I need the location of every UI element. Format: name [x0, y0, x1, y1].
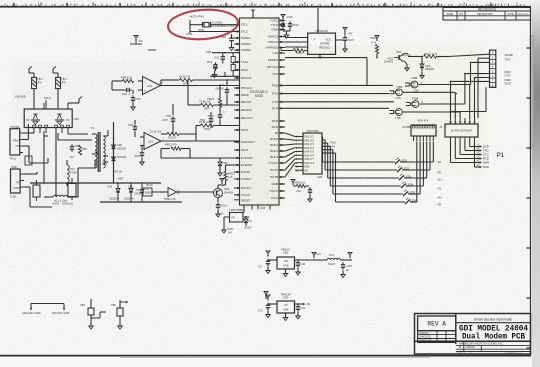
svg-text:C30: C30 — [301, 263, 306, 266]
op-amp U12B — [140, 133, 240, 150]
bead CR5 cluster — [264, 292, 268, 300]
resistor HR7 24.9k — [187, 79, 239, 110]
resistor HR20 4.7k — [370, 36, 379, 59]
labels U30 HR3 — [25, 156, 124, 181]
svg-text:CR1: CR1 — [283, 251, 289, 255]
transistor HQ1 — [384, 54, 409, 72]
title block — [415, 314, 531, 356]
wire staircase to connector — [451, 58, 490, 118]
resistor HP2 47k — [53, 67, 67, 110]
gate U14A — [405, 76, 471, 93]
resistor HR21 4.7k — [408, 52, 490, 58]
svg-text:C24: C24 — [316, 253, 321, 256]
svg-text:23: 23 — [281, 168, 284, 172]
label P1 — [496, 152, 504, 159]
svg-text:18: 18 — [281, 137, 284, 141]
resistor HR13 4.7k — [224, 165, 240, 185]
wire U26 outputs staircase — [322, 137, 336, 203]
svg-text:LTR: LTR — [459, 14, 463, 16]
svg-text:HL3: HL3 — [329, 253, 334, 257]
resistor HR26 — [291, 180, 312, 203]
label LM1458 — [15, 95, 26, 99]
resistor HR22 2.2k — [281, 46, 308, 55]
svg-text:B: B — [459, 345, 461, 349]
ferrite bead FB1 — [80, 299, 100, 329]
wire left verticals — [43, 133, 57, 197]
svg-text:FB2: FB2 — [111, 304, 116, 307]
svg-text:APPROVED: APPROVED — [418, 340, 432, 343]
bead L5 — [231, 53, 235, 77]
svg-text:CT1: CT1 — [258, 266, 263, 269]
svg-text:12: 12 — [281, 92, 284, 96]
svg-text:CH: CH — [438, 178, 442, 182]
revision table — [443, 7, 531, 20]
svg-text:CT2: CT2 — [258, 310, 263, 313]
LED bank LED1-LED6 — [323, 142, 434, 205]
inductor HL1 6.2uH — [44, 195, 78, 202]
capacitor CT2 — [258, 295, 270, 318]
svg-text:LED5: LED5 — [409, 191, 416, 195]
svg-text:RESET: RESET — [241, 198, 251, 202]
connector J4 PHONE — [10, 124, 34, 161]
bottom border — [0, 356, 531, 358]
svg-text:-5V: -5V — [284, 303, 288, 307]
svg-text:HA573BBK: HA573BBK — [230, 208, 244, 212]
gate U14B — [406, 97, 465, 108]
svg-text:DIGITAL GND: DIGITAL GND — [52, 311, 69, 315]
regulator U2 79L05 — [268, 293, 310, 321]
svg-text:HR16: HR16 — [208, 98, 215, 101]
IC U24 store/recall — [285, 29, 344, 60]
svg-text:HC32: HC32 — [227, 228, 234, 231]
svg-text:ANALOG GND: ANALOG GND — [22, 311, 41, 315]
wire C29 row — [210, 72, 240, 78]
svg-text:HC11: HC11 — [208, 115, 215, 118]
svg-text:FORMAT: FORMAT — [418, 332, 429, 335]
svg-text:HR20: HR20 — [370, 36, 377, 40]
connector J2 DB9 — [490, 50, 513, 87]
svg-text:24: 24 — [281, 175, 284, 179]
resistor HP1 47k — [29, 67, 43, 110]
svg-text:2N4403: 2N4403 — [224, 191, 233, 194]
IC U26 74HC573 — [295, 129, 336, 179]
components C15 HC16 — [134, 184, 160, 196]
svg-text:24: 24 — [236, 48, 239, 52]
spare gate stubs — [130, 36, 156, 51]
capacitor C16 — [112, 81, 132, 96]
svg-text:25: 25 — [281, 182, 284, 186]
inductor HL2 47uH — [67, 160, 76, 186]
svg-text:C26: C26 — [296, 190, 301, 193]
capacitor HC11 chain — [208, 98, 226, 126]
stub U24 top — [317, 8, 319, 33]
wires phone-line to transformer — [29, 131, 92, 207]
svg-text:13: 13 — [281, 100, 284, 104]
regulator U1 78L05 — [268, 248, 314, 277]
capacitor C28 — [206, 50, 240, 63]
wire RS232 runs — [285, 85, 394, 108]
svg-text:+5V: +5V — [348, 32, 353, 36]
label HD1 — [396, 51, 411, 57]
zener CA6 1N5234 — [124, 182, 135, 202]
svg-text:24004: 24004 — [466, 345, 475, 349]
svg-text:DATE: DATE — [508, 13, 514, 16]
svg-text:10: 10 — [281, 72, 284, 76]
svg-text:1N914: 1N914 — [134, 193, 142, 196]
resistor HR5 8.2k — [112, 76, 134, 83]
capacitor C38 — [341, 253, 352, 278]
svg-text:VO8: VO8 — [283, 264, 289, 268]
svg-text:22.1184MHZ XTAL: 22.1184MHZ XTAL — [211, 24, 235, 28]
svg-text:FB1: FB1 — [80, 304, 85, 307]
svg-text:1N914: 1N914 — [244, 226, 252, 229]
wire vertical trunk — [113, 122, 115, 183]
svg-text:HC12: HC12 — [221, 205, 228, 208]
capacitor HC33 +VCC — [279, 15, 299, 39]
wire tranout — [161, 149, 240, 159]
inductor HL3 8.2uH — [314, 253, 352, 266]
modem IC U9 RC224AT-1 — [234, 18, 285, 205]
svg-text:CR2: CR2 — [283, 296, 289, 300]
svg-text:HC37: HC37 — [348, 39, 355, 42]
svg-text:8.2uH: 8.2uH — [328, 263, 335, 266]
svg-text:16: 16 — [281, 125, 284, 129]
label TALK — [44, 96, 51, 109]
feedback resistor HR9 43.2k — [160, 74, 239, 86]
svg-text:DCD: DCD — [505, 82, 511, 86]
capacitor HC7 — [215, 79, 229, 105]
zener CR2 1N5129 — [112, 142, 127, 152]
svg-text:DESCRIPTION: DESCRIPTION — [477, 14, 493, 16]
resistor HR11 22.1k — [150, 130, 197, 140]
capacitor C34 — [296, 303, 306, 319]
capacitor C17 1N914 — [140, 182, 153, 202]
svg-text:HQ2: HQ2 — [224, 187, 230, 191]
svg-text:4.7k: 4.7k — [371, 41, 377, 45]
socket XU1 16 PIN SOCKET — [439, 118, 478, 142]
svg-text:HY93C46: HY93C46 — [316, 29, 329, 33]
resistor HR12 47k — [161, 143, 190, 158]
op-amp U12A — [138, 77, 240, 95]
svg-text:AN: AN — [438, 196, 442, 200]
svg-text:REV A: REV A — [427, 321, 446, 328]
svg-text:+VCC: +VCC — [286, 15, 293, 19]
resistor HR10 16.5k — [196, 120, 240, 141]
svg-text:REVISIONS: REVISIONS — [478, 7, 497, 11]
svg-text:P1: P1 — [496, 152, 504, 159]
crystal Y1 circuit — [186, 15, 240, 37]
capacitor C30 — [296, 259, 306, 275]
svg-text:21: 21 — [281, 155, 284, 159]
svg-text:Smart Section Schematic: Smart Section Schematic — [474, 317, 513, 321]
label RESET — [223, 198, 251, 202]
inverter U17 — [160, 188, 188, 202]
capacitor HC5 — [131, 90, 141, 110]
wire analog bus — [30, 158, 182, 202]
svg-text:VR: VR — [231, 217, 235, 220]
svg-text:+C38: +C38 — [346, 265, 353, 268]
svg-text:CHECKED: CHECKED — [418, 336, 431, 339]
svg-text:LED4: LED4 — [407, 183, 414, 187]
svg-text:20: 20 — [281, 149, 284, 153]
top border ruler — [0, 1, 531, 7]
svg-text:14: 14 — [281, 106, 284, 110]
svg-text:Dual Modem PCB: Dual Modem PCB — [462, 332, 525, 342]
P1 pin arrows — [476, 145, 489, 170]
resistor pack AP1 47k — [402, 118, 436, 141]
capacitor HC8 — [162, 104, 175, 134]
ferrite bead FB2 — [100, 300, 128, 329]
svg-text:SCALE: SCALE — [457, 352, 466, 355]
svg-text:+HC4: +HC4 — [186, 32, 193, 36]
svg-text:TXD: TXD — [505, 57, 511, 61]
svg-text:VO8: VO8 — [283, 308, 289, 312]
gate U16B — [390, 109, 461, 120]
capacitor HC9 — [200, 112, 213, 128]
ground tie bracket — [22, 304, 69, 316]
capacitor CT1 — [258, 251, 270, 274]
wire U9 to U26 — [285, 133, 295, 177]
svg-text:LED6: LED6 — [411, 199, 418, 203]
filter RC cluster HC1 HP3 — [70, 140, 88, 159]
svg-text:APPROVED: APPROVED — [517, 13, 529, 16]
wire socket to P1 pins — [451, 142, 480, 168]
svg-text:C28: C28 — [206, 50, 212, 54]
labels S0 P0 — [438, 160, 442, 207]
svg-text:C34: C34 — [301, 307, 306, 310]
capacitor HC2 — [207, 61, 218, 78]
svg-text:10: 10 — [38, 1, 43, 6]
svg-text:1M: 1M — [228, 232, 232, 235]
varistor HOV2 — [52, 178, 76, 206]
svg-text:+5V: +5V — [283, 259, 288, 263]
svg-text:17: 17 — [281, 131, 284, 135]
capacitor HC6 — [128, 120, 140, 137]
connector J5 LINE — [11, 165, 38, 199]
chip bottom stubs — [252, 205, 270, 210]
capacitor HC4 — [221, 34, 234, 51]
capacitor HC12 — [216, 202, 228, 217]
transformer T1 — [78, 126, 108, 197]
capacitor C24 flag — [312, 253, 321, 261]
svg-text:+5V: +5V — [138, 40, 143, 43]
svg-text:HC33: HC33 — [292, 24, 299, 27]
svg-text:27: 27 — [281, 196, 284, 200]
svg-text:22: 22 — [281, 161, 284, 165]
varistor HOV1 — [33, 180, 40, 201]
diode HD3 — [218, 157, 228, 176]
stub top flag — [251, 10, 255, 18]
svg-text:26: 26 — [281, 189, 284, 193]
svg-text:HR15 47k: HR15 47k — [164, 197, 176, 201]
reset supervisor HA573BBK — [224, 205, 249, 226]
gate U16A — [390, 86, 456, 100]
zener CA5 1N5229 — [107, 182, 120, 202]
svg-text:HR26 1%: HR26 1% — [294, 182, 306, 185]
svg-text:H5: H5 — [438, 203, 442, 207]
zener CR1 1N5248 — [420, 56, 435, 79]
svg-text:HC1: HC1 — [214, 57, 220, 60]
wire HR16 feed — [219, 85, 220, 99]
ground HC32 — [222, 226, 234, 235]
svg-text:-5V: -5V — [306, 302, 310, 306]
zener CR3 1N5129 — [102, 154, 127, 166]
svg-text:25: 25 — [236, 42, 239, 46]
svg-text:HC16: HC16 — [146, 184, 153, 187]
capacitor HC17 — [134, 146, 144, 165]
svg-text:HC3 4764: HC3 4764 — [190, 15, 204, 19]
svg-text:ZONE: ZONE — [447, 14, 454, 16]
optocoupler U10 — [24, 97, 82, 134]
svg-text:15: 15 — [281, 119, 284, 123]
transistor HQ2 — [188, 179, 233, 203]
svg-text:LED3: LED3 — [405, 175, 412, 179]
capacitor HC37 — [343, 28, 355, 53]
svg-text:26: 26 — [236, 36, 239, 40]
svg-text:SHEET 2 of 2: SHEET 2 of 2 — [505, 351, 522, 355]
scan bleed tint — [12, 18, 485, 212]
red annotation ellipse — [167, 7, 239, 41]
svg-text:TP#4: TP#4 — [198, 29, 205, 32]
wire TXD run — [285, 54, 367, 85]
diode CR2 1N914 — [244, 216, 252, 229]
svg-text:19: 19 — [281, 143, 284, 147]
staircase junction dots — [450, 73, 476, 94]
svg-text:C6: C6 — [438, 187, 442, 191]
svg-text:U26: U26 — [317, 175, 323, 179]
right border ruler — [527, 7, 531, 356]
